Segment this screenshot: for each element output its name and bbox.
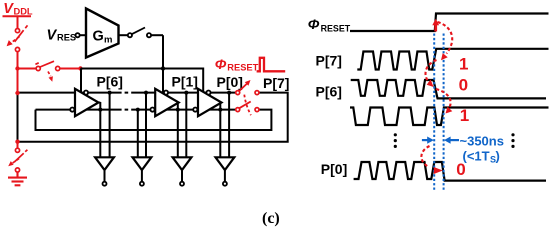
net VDDL label xyxy=(3,1,33,17)
svg-text:1: 1 xyxy=(459,54,468,73)
blue cursor line 1 xyxy=(433,34,435,191)
wire control line (y=93) left of buffers xyxy=(18,92,119,94)
wire red rail segment xyxy=(18,68,37,70)
red dashed arc 2 (P7 to P6) xyxy=(425,60,436,83)
svg-text:0: 0 xyxy=(459,76,468,95)
output buffer B1 xyxy=(95,157,114,185)
output buffer B2 xyxy=(133,157,152,185)
switch S3 (ground switch) xyxy=(12,148,27,172)
svg-text:DDL: DDL xyxy=(14,7,33,17)
wire tap verticals T2 pair xyxy=(137,110,139,158)
pin control bubbles on buffer slants xyxy=(84,91,88,95)
label PHI_RESET (timing) xyxy=(308,17,351,33)
wire tap verticals T1 pair xyxy=(99,102,101,157)
pin VRES input bubble xyxy=(76,33,80,37)
label PHI_RESET (red) xyxy=(215,57,259,73)
wire outer feedback loop xyxy=(18,93,288,142)
wire VRES to Gm xyxy=(80,34,86,36)
wire top rail (black) xyxy=(81,69,204,93)
svg-text:P[0]: P[0] xyxy=(321,161,347,177)
wire buffer1 output stub xyxy=(98,102,100,104)
pin input bubbles on buffer left edges xyxy=(70,108,74,112)
red arrow on PHI_RESET edge xyxy=(434,24,437,32)
svg-text:): ) xyxy=(496,149,500,164)
wire switch to rail drop xyxy=(151,34,163,36)
svg-text:V: V xyxy=(47,27,58,43)
red dashed arc 3 (P6 to P5) xyxy=(436,89,451,109)
switch S1 (VDDL power switch) xyxy=(11,25,28,51)
wire control line dashed gap xyxy=(118,92,133,94)
blue cursor line 2 xyxy=(443,34,445,191)
svg-text:Φ: Φ xyxy=(308,17,320,33)
blue measure arrow right xyxy=(450,139,459,141)
buffer A2 (delay cell) xyxy=(155,89,179,116)
output buffer B3 xyxy=(173,157,192,185)
switch S2 arrowhead xyxy=(49,76,53,82)
switch S5 motion dashed arc xyxy=(244,95,251,116)
node dots on signal line xyxy=(98,108,102,112)
switch S1 arrowhead xyxy=(7,40,13,46)
ellipsis dots right xyxy=(511,133,514,148)
waveform PHI_RESET xyxy=(350,14,549,32)
node rail-Gm junction xyxy=(161,66,165,70)
red dashed arc 1 (reset to P7) xyxy=(438,22,453,54)
node red junction top of left edge xyxy=(15,91,19,95)
svg-text:P[6]: P[6] xyxy=(97,73,123,89)
ground (red) xyxy=(8,172,27,185)
buffer A1 (delay cell) xyxy=(75,89,99,116)
switch S2 (rail series switch) xyxy=(35,61,59,76)
switch S4 (Gm output switch) xyxy=(128,28,151,38)
wire tap verticals T3 pair xyxy=(177,102,179,157)
node red junction bottom of left edge xyxy=(15,140,19,144)
node dots on control line xyxy=(108,91,112,95)
wire Gm output xyxy=(119,34,128,36)
node red/black rail boundary dot xyxy=(78,66,82,70)
svg-text:(c): (c) xyxy=(262,210,280,227)
svg-text:P[1]: P[1] xyxy=(172,73,198,89)
waveform P[7] xyxy=(357,49,548,70)
blue measure arrow left xyxy=(422,139,429,141)
wire control line right portion xyxy=(133,92,236,94)
svg-text:P[7]: P[7] xyxy=(316,52,342,68)
svg-text:~350ns: ~350ns xyxy=(460,133,504,148)
wire VDDL vertical drop xyxy=(17,16,19,28)
wire buffer2 power drop / Gm feed xyxy=(162,35,164,93)
wire red vertical to rail junction xyxy=(17,52,19,93)
svg-text:(<1T: (<1T xyxy=(463,149,490,164)
svg-text:P[7]: P[7] xyxy=(263,75,289,91)
wire signal line (y=110) xyxy=(36,109,119,111)
ellipsis dots left xyxy=(394,133,397,148)
switch S5 (crossover reset switch) circles xyxy=(236,91,259,112)
wire VDDL underline bar xyxy=(3,15,32,17)
buffer A3 (delay cell) xyxy=(198,89,222,116)
switch S5 arm lower (cross) xyxy=(239,102,250,109)
waveform P[6] xyxy=(351,80,546,98)
svg-text:Φ: Φ xyxy=(215,57,227,73)
wire buffer1 power drop xyxy=(80,69,82,93)
svg-text:P[0]: P[0] xyxy=(217,74,243,90)
net VRES label xyxy=(47,27,77,43)
svg-text:m: m xyxy=(104,35,112,46)
op-amp U1 Gm transconductor xyxy=(86,9,119,58)
svg-text:P[6]: P[6] xyxy=(316,83,342,99)
output buffer B4 xyxy=(216,157,235,185)
wire reset pulse glyph xyxy=(257,58,286,72)
svg-text:RESET: RESET xyxy=(227,63,258,73)
wire inner feedback bracket xyxy=(36,110,272,130)
label (<1Ts) xyxy=(463,149,500,165)
wire red to ground switch xyxy=(17,142,19,149)
svg-text:G: G xyxy=(93,29,104,45)
svg-text:RES: RES xyxy=(57,33,76,43)
waveform P[5] row (unlabeled) xyxy=(350,108,549,126)
waveform P[0] xyxy=(354,162,546,181)
svg-text:1: 1 xyxy=(460,106,469,125)
switch S3 arrowhead xyxy=(8,161,13,166)
switch S5 arm upper with arrow xyxy=(239,84,246,91)
node rail-left junction xyxy=(15,66,19,70)
red dashed arc 4 (P5 to P0) xyxy=(421,146,429,167)
svg-text:RESET: RESET xyxy=(321,23,351,33)
wire tap verticals T4 pair xyxy=(219,102,221,157)
